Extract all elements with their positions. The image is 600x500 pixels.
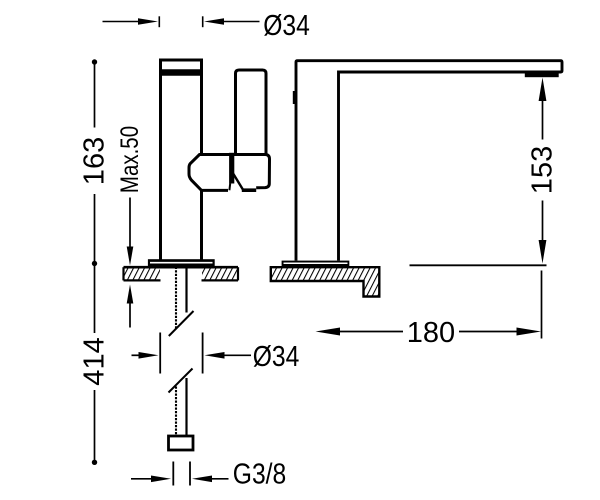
svg-text:414: 414 xyxy=(79,337,111,385)
dimension 163 xyxy=(94,62,96,264)
handle base xyxy=(229,155,270,188)
counter reference line (right) xyxy=(410,264,547,266)
nut xyxy=(169,436,194,450)
set-screw mark on spout column xyxy=(293,91,297,104)
threaded shank lower segment xyxy=(175,387,177,437)
lever wedge thick bar xyxy=(229,153,234,184)
wedge diagonal edge xyxy=(232,172,243,191)
dimension 153 xyxy=(539,78,547,102)
cartridge bulge xyxy=(189,155,229,191)
left base flange xyxy=(148,259,215,267)
dimension 414 xyxy=(94,264,96,334)
svg-text:180: 180 xyxy=(407,317,455,349)
svg-text:Ø34: Ø34 xyxy=(253,340,300,372)
svg-text:Ø34: Ø34 xyxy=(263,9,310,41)
dimension top Ø34 xyxy=(103,16,260,27)
threaded shank upper segment xyxy=(175,267,177,329)
spout outline xyxy=(296,61,562,261)
lower break line xyxy=(169,369,193,393)
countertop left block hatch xyxy=(125,268,161,280)
countertop left block outline xyxy=(124,267,239,280)
svg-text:Max.50: Max.50 xyxy=(115,126,143,193)
dimension G3/8 xyxy=(131,478,152,480)
body cap band xyxy=(160,69,203,76)
dimension Max.50 xyxy=(115,126,143,193)
extension line to 180 xyxy=(541,271,543,339)
spout base flange xyxy=(282,261,350,268)
dimension 180 xyxy=(316,328,341,336)
lever handle bar xyxy=(236,70,267,154)
countertop right block xyxy=(271,267,380,296)
svg-text:153: 153 xyxy=(527,146,559,194)
upper break line xyxy=(169,311,194,336)
svg-text:163: 163 xyxy=(79,137,111,185)
wedge left leg xyxy=(228,184,231,191)
aerator xyxy=(525,73,559,77)
svg-text:G3/8: G3/8 xyxy=(233,458,286,490)
dimension bottom Ø34 xyxy=(132,354,140,356)
faucet body (left column) xyxy=(161,60,202,260)
